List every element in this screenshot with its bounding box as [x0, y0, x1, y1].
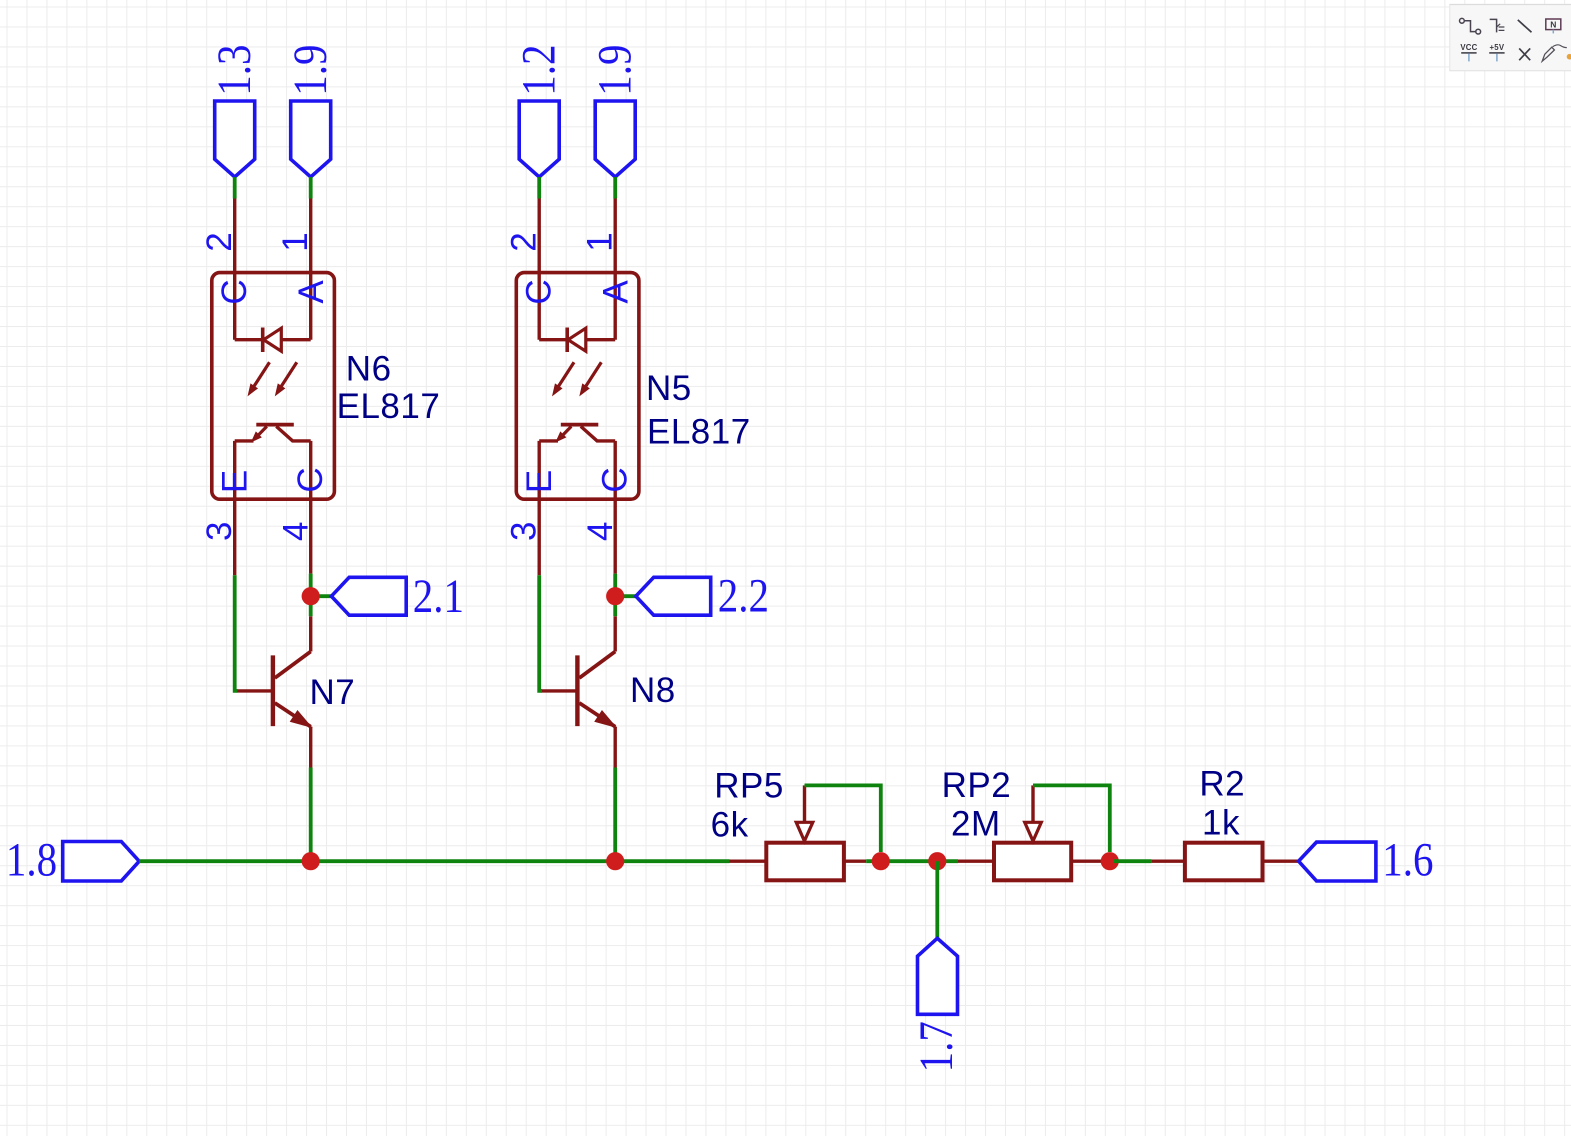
- svg-text:EL817: EL817: [337, 387, 441, 426]
- svg-text:C: C: [215, 279, 254, 304]
- N5 pin 2 lead (C of LED): [538, 199, 541, 340]
- svg-text:1: 1: [581, 232, 620, 251]
- wire main bus 1.8 to RP5: [139, 859, 729, 863]
- toolbar icon: partial icon at edge (orange dot): [1567, 54, 1571, 60]
- wire stub to port 2.1: [311, 594, 332, 598]
- toolbar icon: +5V power symbol: [1489, 43, 1505, 61]
- wire N5/N8 pin4 to collector: [613, 574, 617, 617]
- potentiometer RP2 left lead: [958, 860, 994, 863]
- svg-text:R2: R2: [1199, 765, 1245, 804]
- svg-text:2.1: 2.1: [413, 570, 464, 622]
- junction node at collector x=310.7: [302, 587, 320, 605]
- wire N6/N7 emitter to bus: [309, 768, 313, 862]
- svg-text:3: 3: [505, 522, 544, 541]
- N5 pin 1 lead (A of LED): [614, 199, 617, 340]
- svg-text:2: 2: [505, 232, 544, 251]
- junction node at collector x=615.2: [606, 587, 624, 605]
- svg-text:1k: 1k: [1202, 804, 1240, 843]
- toolbar icon: draw pencil: [1542, 45, 1567, 61]
- toolbar icon: no-connect flag: [1519, 48, 1530, 60]
- N8 collector lead: [614, 616, 617, 651]
- junction N8 emitter on bus: [606, 852, 624, 870]
- svg-text:4: 4: [581, 522, 620, 541]
- wire N6/N7 pin3 to base: [235, 575, 238, 691]
- svg-text:1.7: 1.7: [910, 1021, 962, 1072]
- net port 1.7 (bottom): [910, 938, 962, 1072]
- svg-text:6k: 6k: [711, 805, 749, 844]
- svg-text:1.9: 1.9: [589, 45, 641, 96]
- junction RP2 wiper on bus: [1101, 852, 1119, 870]
- junction N7 emitter on bus: [302, 852, 320, 870]
- wire N5/N8 pin3 to base: [539, 575, 542, 691]
- N8 base lead: [541, 689, 576, 692]
- RP5 wiper arrow: [796, 785, 813, 841]
- svg-text:E: E: [216, 470, 255, 493]
- svg-text:N5: N5: [646, 369, 692, 408]
- N7 emitter lead: [309, 727, 312, 768]
- svg-text:1.9: 1.9: [284, 45, 336, 96]
- transistor N7 (NPN): [273, 652, 311, 728]
- svg-text:C: C: [291, 467, 330, 492]
- svg-text:N8: N8: [630, 671, 676, 710]
- svg-text:C: C: [596, 467, 635, 492]
- net port 1.9 (top, x=310.7): [284, 45, 336, 177]
- svg-text:RP2: RP2: [942, 766, 1012, 805]
- N8 emitter lead: [614, 727, 617, 768]
- N5 LED diode: [539, 328, 615, 353]
- svg-text:3: 3: [200, 522, 239, 541]
- net port 2.1: [331, 570, 464, 622]
- svg-text:1.6: 1.6: [1382, 834, 1433, 886]
- R2 right lead: [1263, 860, 1299, 863]
- net port 1.3 (top, x=234.7): [208, 45, 260, 177]
- potentiometer RP2 body: [994, 843, 1071, 881]
- svg-text:2: 2: [200, 232, 239, 251]
- wire RP2 to R2: [1114, 859, 1152, 863]
- N6 pin 4 lead (C): [309, 441, 312, 574]
- svg-text:4: 4: [277, 522, 316, 541]
- optocoupler N5 body: [516, 273, 639, 500]
- svg-text:EL817: EL817: [647, 413, 751, 452]
- wire N5/N8 emitter to bus: [613, 768, 617, 862]
- svg-text:2M: 2M: [951, 805, 1001, 844]
- net port 1.8 (left): [6, 834, 139, 886]
- svg-text:2.2: 2.2: [718, 570, 769, 622]
- svg-text:1.3: 1.3: [208, 45, 260, 96]
- N6 light emission arrows: [248, 362, 296, 395]
- toolbar icon: line tool: [1518, 20, 1532, 32]
- junction net 1.7 tap: [928, 852, 946, 870]
- N7 collector lead: [309, 616, 312, 651]
- wire from port 1.9 to pin: [613, 177, 617, 199]
- N6 pin 3 lead (E): [233, 441, 236, 575]
- svg-text:A: A: [596, 280, 635, 304]
- svg-text:1.8: 1.8: [6, 834, 57, 886]
- wire RP5 wiper loop: [805, 785, 881, 852]
- wire stub to port 2.2: [615, 594, 636, 598]
- svg-text:1: 1: [276, 232, 315, 251]
- svg-text:N6: N6: [346, 350, 392, 389]
- transistor N8 (NPN): [577, 652, 615, 728]
- potentiometer RP5 left lead: [730, 860, 767, 863]
- net port 1.6 (right): [1299, 834, 1434, 886]
- toolbar icon: VCC power symbol: [1460, 43, 1477, 61]
- net port 1.9 (top, x=615.2): [589, 45, 641, 177]
- N7 base lead: [237, 689, 272, 692]
- N5 pin 3 lead (E): [538, 441, 541, 575]
- svg-text:N7: N7: [310, 673, 356, 712]
- N6 phototransistor: [235, 425, 311, 442]
- toolbar icon: wire tool: [1460, 18, 1481, 34]
- N5 phototransistor: [539, 425, 615, 442]
- toolbar icon: bus tool: [1490, 19, 1505, 32]
- RP2 right lead: [1071, 860, 1105, 863]
- net port 1.2 (top, x=539.2): [513, 45, 565, 177]
- wire RP5 to RP2: [866, 859, 958, 863]
- N5 light emission arrows: [553, 362, 602, 395]
- potentiometer RP5 body: [766, 843, 844, 881]
- svg-text:N: N: [1550, 19, 1556, 29]
- svg-text:VCC: VCC: [1460, 43, 1477, 52]
- wire to net 1.7 port: [935, 861, 939, 938]
- N5 pin 4 lead (C): [614, 441, 617, 574]
- wire from port 1.2 to pin: [537, 177, 541, 199]
- svg-text:A: A: [292, 280, 331, 304]
- svg-text:RP5: RP5: [714, 767, 784, 806]
- N6 pin 1 lead (A of LED): [309, 199, 312, 340]
- svg-text:+5V: +5V: [1490, 43, 1505, 52]
- junction RP5 wiper on bus: [872, 852, 890, 870]
- wire from port 1.3 to pin: [233, 177, 237, 199]
- svg-text:C: C: [520, 279, 559, 304]
- svg-text:1.2: 1.2: [513, 45, 565, 96]
- wire N6/N7 pin4 to collector: [309, 574, 313, 617]
- toolbar icon: net label tool: [1546, 19, 1561, 33]
- wiring tools toolbar panel: [1449, 5, 1571, 71]
- RP5 right lead: [844, 860, 866, 863]
- N6 pin 2 lead (C of LED): [233, 199, 236, 340]
- net port 2.2: [636, 570, 769, 622]
- wire from port 1.9 to pin: [309, 177, 313, 199]
- wire RP2 wiper loop: [1033, 785, 1110, 852]
- optocoupler N6 body: [212, 273, 335, 500]
- svg-text:E: E: [520, 470, 559, 493]
- N6 LED diode: [235, 328, 311, 353]
- RP2 wiper arrow: [1025, 785, 1042, 841]
- resistor R2 left lead: [1152, 860, 1185, 863]
- resistor R2 body: [1185, 843, 1263, 881]
